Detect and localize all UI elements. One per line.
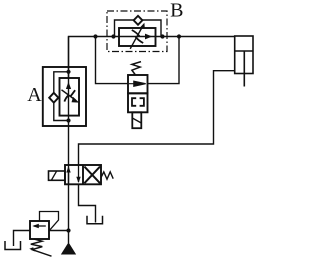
- check valve in B (diamond): [134, 16, 143, 25]
- node: B left junction dot: [111, 34, 115, 38]
- adjustment arrow B (diagonal): [130, 27, 142, 49]
- wire: sequence valve right port up to top line: [148, 37, 180, 84]
- throttle arcs A: [64, 95, 68, 101]
- piston line: [235, 50, 253, 52]
- arrow on B through line: [145, 34, 152, 40]
- flow control valve B body rect: [119, 28, 156, 46]
- wire: main top horizontal line from A riser to cylinder: [69, 37, 236, 78]
- tank T1: [5, 241, 21, 250]
- lower square: [128, 93, 148, 112]
- outer box A: [43, 67, 86, 126]
- check valve in A (diamond): [49, 93, 58, 103]
- valve body squares: [65, 165, 101, 184]
- arrow up on A through line: [66, 82, 71, 89]
- node: B right junction dot: [160, 34, 164, 38]
- solenoid: [49, 171, 65, 180]
- upper square: [128, 75, 148, 93]
- bracket contacts inside lower square: [132, 98, 136, 106]
- wire: valve T port to tank T2: [79, 185, 96, 223]
- node: A top junction dot: [66, 70, 70, 74]
- wire: cylinder bottom port to directional valve B port: [79, 71, 236, 165]
- tank T2: [87, 216, 103, 224]
- pilot line loop: [40, 212, 59, 231]
- down arrow: [78, 165, 80, 182]
- node: pump junction dot: [66, 228, 70, 232]
- wire: main vertical P line through A down to pump junction: [68, 37, 70, 232]
- spring below relief valve: [31, 239, 43, 250]
- wire: relief valve branch line: [49, 230, 69, 232]
- relief valve square: [30, 221, 49, 239]
- return spring right: [101, 172, 113, 179]
- adjustment arrow through spring: [32, 250, 52, 257]
- svg-text:A: A: [27, 84, 42, 106]
- svg-text:B: B: [170, 0, 183, 21]
- wire: relief valve to tank T1: [14, 231, 31, 247]
- flow control valve A body rect: [60, 78, 80, 116]
- wire: A check bypass loop: [54, 72, 69, 93]
- straight arrows in left square: up arrow: [68, 168, 70, 185]
- chain-dot enclosure box B: [107, 11, 167, 52]
- drain stub rect with diagonal: [132, 112, 141, 128]
- node: A bottom junction dot: [66, 118, 70, 122]
- adjustment arrow A (diagonal): [62, 90, 76, 100]
- throttle arcs B: [132, 30, 140, 36]
- arrow left inside: [34, 225, 46, 227]
- crossed X in right square: [84, 167, 100, 184]
- wire: B check bypass loop: [114, 20, 134, 37]
- node D2: junction of sequence valve riser with top line: [177, 34, 181, 38]
- arrow right inside upper square: [129, 81, 146, 86]
- piston rod: [243, 51, 245, 87]
- wire: feed from D1 down and right to sequence valve left port: [96, 37, 129, 84]
- spring on top: [132, 62, 141, 75]
- node D1: junction top line to sequence valve feed: [93, 34, 97, 38]
- pressure source: filled triangle: [62, 231, 75, 254]
